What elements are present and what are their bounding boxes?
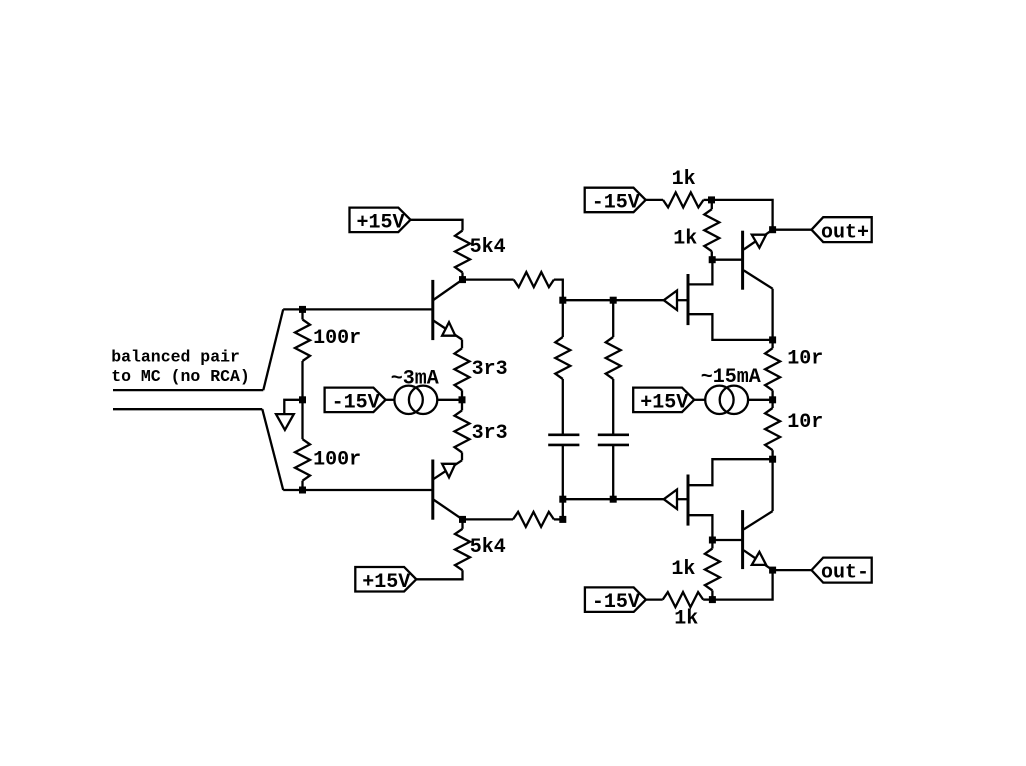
transistor Q1 collector diagonal — [433, 280, 462, 300]
jfet J1 gate arrow — [664, 291, 677, 311]
wire Q3 collector down — [771, 289, 773, 340]
node current source left junction — [459, 396, 466, 403]
wire 3r3 upper to mid — [461, 390, 463, 400]
wire lower node to 1k vertical — [711, 540, 713, 549]
svg-text:100r: 100r — [313, 449, 361, 472]
capacitor left plate bottom — [548, 444, 579, 447]
transistor Q3 base bar — [741, 231, 744, 290]
svg-text:to MC (no RCA): to MC (no RCA) — [111, 367, 250, 386]
wire 1k to top node — [704, 199, 712, 201]
transistor Q3 emitter diagonal — [744, 230, 773, 250]
wire right RC branch to cap — [612, 379, 614, 435]
node out- junction — [769, 567, 776, 574]
node top rail right — [610, 297, 617, 304]
wire 1k to bottom node — [703, 598, 712, 600]
jfet J2 channel bar — [687, 475, 690, 526]
svg-text:3r3: 3r3 — [472, 422, 508, 445]
transistor Q1 base bar — [431, 280, 434, 340]
wire 5k4 lower to +15V — [416, 570, 462, 579]
wire +15V to 5k4 — [411, 220, 463, 231]
svg-text:out-: out- — [821, 562, 869, 585]
current source ~15mA circle A — [705, 386, 733, 414]
wire base Q4 — [712, 539, 742, 541]
wire lower base line — [283, 489, 433, 491]
power flag +15V bottom — [355, 567, 416, 592]
transistor Q2 emitter diagonal — [433, 460, 462, 479]
wire 10r top lead — [771, 340, 773, 348]
svg-text:+15V: +15V — [640, 391, 688, 414]
node top right junction — [708, 196, 715, 203]
wire input+ fan diagonal — [263, 309, 283, 390]
wire left RC branch to cap — [562, 379, 564, 435]
power flag +15V right — [633, 388, 694, 413]
wire input- fan diagonal — [262, 409, 283, 490]
wire 1k vertical upper lead — [711, 200, 713, 209]
wire mid to 10r lower — [771, 400, 773, 408]
wire 10r upper to mid — [771, 390, 773, 399]
wire -15V to 1k lower — [646, 598, 663, 600]
wire emitter to 3r3 upper — [461, 340, 463, 349]
wire base Q3 — [712, 259, 742, 261]
transistor Q3 emitter arrow — [752, 235, 766, 248]
power flag -15V left — [325, 388, 386, 413]
svg-text:out+: out+ — [821, 221, 869, 244]
node Q1 collector junction — [459, 276, 466, 283]
transistor Q2 emitter arrow — [442, 464, 455, 478]
wire right cap to bottom rail — [612, 445, 614, 499]
wire 1k vertical lower lead — [711, 591, 713, 600]
wire +15V to current source — [694, 399, 705, 401]
wire 1k vertical to drain node — [711, 251, 713, 259]
svg-text:-15V: -15V — [592, 192, 640, 215]
transistor Q4 collector diagonal — [744, 511, 773, 529]
power flag +15V top — [350, 208, 411, 233]
resistor 1k bottom horizontal — [663, 592, 704, 607]
resistor right RC branch — [606, 337, 621, 379]
node mid ground junction — [299, 396, 306, 403]
node 10r bottom junction — [769, 456, 776, 463]
jfet J1 channel bar — [687, 274, 690, 325]
svg-text:~3mA: ~3mA — [391, 367, 439, 390]
resistor 1k vertical upper — [704, 209, 719, 251]
svg-text:-15V: -15V — [592, 591, 640, 614]
wire 100r top lead — [301, 309, 303, 319]
current source ~15mA circle B — [720, 386, 748, 414]
node bottom rail left — [559, 496, 566, 503]
node lower base junction — [299, 487, 306, 494]
svg-text:1k: 1k — [671, 558, 695, 581]
net flag out- — [812, 558, 872, 583]
capacitor right plate top — [598, 433, 629, 436]
transistor Q4 emitter diagonal — [744, 550, 773, 570]
transistor Q2 base bar — [431, 460, 434, 520]
wire 100r upper to mid node — [301, 361, 303, 400]
svg-text:+15V: +15V — [362, 571, 410, 594]
wire J1 source — [688, 314, 773, 340]
wire out+ lead — [773, 229, 812, 231]
wire 10r lower lead — [771, 450, 773, 459]
wire collector node to 5k4 lower — [461, 519, 463, 528]
resistor left RC branch — [555, 337, 570, 379]
resistor 3r3 lower — [455, 410, 470, 452]
wire -15V to 1k — [646, 199, 663, 201]
capacitor left plate top — [548, 433, 579, 436]
node bottom rail right — [610, 496, 617, 503]
wire mid to 3r3 lower — [461, 400, 463, 411]
wire bottom node to out- column — [712, 570, 772, 600]
svg-text:1k: 1k — [672, 168, 696, 191]
wire J2 gate stub — [677, 498, 688, 500]
wire current source to 3r3 node — [437, 399, 462, 401]
wire collector node to R top — [463, 278, 514, 280]
current source ~3mA circle B — [409, 386, 437, 414]
svg-text:3r3: 3r3 — [472, 358, 508, 381]
svg-text:10r: 10r — [787, 411, 823, 434]
transistor Q3 collector diagonal — [744, 270, 773, 288]
transistor Q4 emitter arrow — [752, 552, 766, 565]
power flag -15V bottom right — [585, 587, 646, 612]
resistor 5k4 lower — [455, 529, 470, 571]
resistor coupling bottom — [513, 512, 554, 527]
svg-text:-15V: -15V — [332, 391, 380, 414]
node current source right junction — [769, 396, 776, 403]
wire 3r3 lower to emitter — [461, 452, 463, 460]
resistor 5k4 upper — [455, 231, 470, 273]
node top rail left — [559, 297, 566, 304]
resistor 1k top horizontal — [663, 192, 704, 207]
node out+ junction — [769, 226, 776, 233]
ground — [276, 414, 294, 430]
node upper base junction — [299, 306, 306, 313]
node drain base junction lower — [709, 537, 716, 544]
resistor 3r3 upper — [455, 348, 470, 390]
svg-text:1k: 1k — [674, 608, 698, 631]
power flag -15V top right — [585, 188, 646, 213]
wire current source to 10r node — [748, 399, 773, 401]
resistor coupling top — [514, 272, 554, 287]
node drain base junction — [709, 256, 716, 263]
svg-text:balanced pair: balanced pair — [111, 347, 240, 366]
resistor 100r lower — [295, 439, 310, 481]
wire J1 drain — [688, 260, 712, 285]
wire top rail — [563, 299, 664, 301]
wire 5k4 to collector node — [461, 273, 463, 280]
resistor 100r upper — [295, 320, 310, 362]
transistor Q4 base bar — [741, 510, 744, 569]
svg-text:~15mA: ~15mA — [701, 366, 761, 389]
node Q2 collector junction — [459, 516, 466, 523]
wire left cap to bottom rail — [562, 445, 564, 499]
svg-text:1k: 1k — [673, 228, 697, 251]
wire ground tap — [284, 400, 302, 414]
node R bottom corner junction — [559, 516, 566, 523]
wire J1 gate stub — [677, 299, 688, 301]
wire 100r lower lead — [301, 481, 303, 490]
svg-text:+15V: +15V — [357, 211, 405, 234]
transistor Q1 emitter diagonal — [433, 321, 462, 340]
wire upper base line — [283, 308, 433, 310]
svg-text:5k4: 5k4 — [470, 536, 506, 559]
wire bottom rail — [563, 498, 664, 500]
wire top node to out+ column — [712, 200, 773, 230]
resistor 10r upper — [765, 348, 780, 390]
wire corner up to bottom rail — [562, 499, 564, 519]
resistor 10r lower — [765, 408, 780, 450]
capacitor right plate bottom — [598, 444, 629, 447]
wire R top corner — [554, 280, 563, 301]
svg-text:100r: 100r — [313, 327, 361, 350]
wire Q2 collector to R bottom — [463, 518, 514, 520]
wire J2 source — [688, 459, 773, 485]
wire Q4 collector up — [771, 459, 773, 511]
svg-text:10r: 10r — [787, 347, 823, 370]
wire R bottom corner — [554, 518, 563, 520]
svg-text:5k4: 5k4 — [470, 236, 506, 259]
transistor Q2 collector diagonal — [433, 500, 462, 520]
node bottom right junction — [709, 596, 716, 603]
wire left RC branch upper lead — [562, 300, 564, 337]
wire -15V to current source — [386, 399, 395, 401]
wire out- lead — [773, 569, 812, 571]
wire mid node to 100r lower — [301, 400, 303, 439]
jfet J2 gate arrow — [664, 490, 677, 510]
transistor Q1 emitter arrow — [442, 322, 455, 336]
wire input- horizontal — [113, 408, 262, 410]
resistor 1k vertical lower — [705, 549, 720, 591]
wire J2 drain — [688, 515, 712, 540]
net flag out+ — [812, 217, 872, 242]
node 10r top junction — [769, 336, 776, 343]
wire right RC branch upper lead — [612, 300, 614, 337]
current source ~3mA circle A — [394, 386, 422, 414]
wire input+ horizontal — [113, 389, 263, 391]
